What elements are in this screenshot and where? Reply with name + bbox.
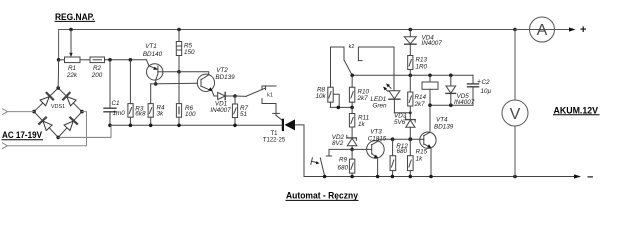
svg-text:BD140: BD140 xyxy=(143,51,163,58)
node bridge+/R1 xyxy=(57,58,61,62)
diode bridge top-right xyxy=(63,93,76,106)
svg-text:22k: 22k xyxy=(66,72,78,79)
svg-text:Automat - Ręczny: Automat - Ręczny xyxy=(286,191,358,201)
svg-text:BD139: BD139 xyxy=(434,123,454,130)
wire coil bottom net xyxy=(430,104,473,106)
resistor R1 (potentiometer) xyxy=(65,57,81,63)
diode VD5 xyxy=(450,75,452,86)
diode VD4 xyxy=(409,30,411,37)
svg-text:IN4007: IN4007 xyxy=(422,40,443,47)
node rail R6 xyxy=(177,124,181,128)
switch Automat/Reczny xyxy=(329,149,352,156)
wire R1-R2 xyxy=(80,59,90,61)
wire bridge minus to rail xyxy=(58,125,111,137)
wire LED cathode to VD3 xyxy=(394,112,410,114)
battery label xyxy=(554,105,599,115)
relay coil k1 xyxy=(422,82,438,89)
resistor R7 xyxy=(234,96,236,104)
node bridge left xyxy=(32,110,36,114)
wire wiper riser xyxy=(70,30,72,55)
transistor VT3 xyxy=(367,141,385,159)
svg-text:3k: 3k xyxy=(157,111,165,118)
bottom rail nodes xyxy=(350,175,354,179)
relay contact k2 xyxy=(331,47,345,87)
node R5/VT1 base/R6 xyxy=(177,70,181,74)
wire VT1 base to R5 node xyxy=(163,71,179,73)
zener VD3 xyxy=(409,113,411,120)
wire +bus y60 xyxy=(105,59,147,61)
node R3 top xyxy=(129,58,133,62)
node rail R7 xyxy=(233,124,237,128)
svg-text:T1: T1 xyxy=(270,131,278,137)
svg-text:1k: 1k xyxy=(416,155,424,162)
svg-text:AC 17-19V: AC 17-19V xyxy=(2,130,42,140)
svg-text:680: 680 xyxy=(338,164,349,171)
svg-text:VT4: VT4 xyxy=(436,116,448,123)
resistor R8 (trimmer) xyxy=(328,87,333,102)
node top-rail / ammeter branch xyxy=(513,28,517,32)
node R12 top xyxy=(391,137,395,141)
svg-text:T122-25: T122-25 xyxy=(263,137,286,143)
svg-text:−: − xyxy=(587,172,593,184)
svg-text:C1: C1 xyxy=(112,100,120,107)
transistor VT2 xyxy=(197,74,214,91)
node VT1 collector xyxy=(154,82,158,86)
wire mid bus y75.3 xyxy=(352,74,473,76)
svg-text:VT1: VT1 xyxy=(145,43,157,50)
wire main mid rail y125.3 xyxy=(110,124,282,126)
svg-text:680: 680 xyxy=(397,148,408,155)
node arm/R10 xyxy=(350,74,354,78)
svg-text:k1: k1 xyxy=(267,92,273,98)
resistor R11 xyxy=(351,107,353,113)
title REG.NAP. xyxy=(55,12,95,23)
svg-text:5V6: 5V6 xyxy=(394,119,406,126)
svg-text:1m0: 1m0 xyxy=(113,110,126,117)
diode bridge bottom-right xyxy=(64,118,77,131)
wire base bus to VT2 collector xyxy=(179,72,209,75)
voltmeter V xyxy=(514,30,516,101)
wire bridge top to R1 node xyxy=(57,60,59,88)
relay contact k1 xyxy=(235,95,246,97)
AC input wire 2 xyxy=(3,143,8,149)
wire R1 left lead xyxy=(59,59,65,61)
resistor R12 xyxy=(392,139,394,156)
wire top rail xyxy=(59,30,571,61)
thyristor T1 xyxy=(282,120,284,130)
svg-text:1k: 1k xyxy=(358,121,366,128)
resistor R6 xyxy=(178,72,180,104)
resistor R14 xyxy=(409,75,411,92)
node coil top xyxy=(428,74,432,78)
resistor R13 xyxy=(408,56,413,70)
svg-text:100: 100 xyxy=(185,111,196,118)
svg-text:BD139: BD139 xyxy=(215,74,235,81)
svg-text:1R0: 1R0 xyxy=(416,63,428,70)
svg-text:Gren: Gren xyxy=(373,103,387,110)
node switch bottom xyxy=(323,175,327,179)
svg-text:8V2: 8V2 xyxy=(332,140,344,147)
AC input label xyxy=(2,130,42,140)
svg-text:IN4007: IN4007 xyxy=(454,99,475,106)
node bridge top xyxy=(56,86,60,90)
svg-text:2k7: 2k7 xyxy=(357,95,369,102)
node C1 top xyxy=(108,58,112,62)
svg-text:+: + xyxy=(477,79,481,86)
wire R8/R10 bottom link xyxy=(331,106,353,108)
svg-text:200: 200 xyxy=(91,72,103,79)
resistor R15 xyxy=(409,139,411,156)
AC input wire 1 xyxy=(3,109,8,115)
diode LED1 xyxy=(389,91,400,99)
ammeter A xyxy=(530,17,555,42)
svg-text:R1: R1 xyxy=(68,65,76,72)
node rail R3 xyxy=(129,124,133,128)
node rail R4 xyxy=(149,124,153,128)
capacitor C2 xyxy=(472,75,474,84)
transistor VT1 xyxy=(147,64,163,80)
svg-text:V: V xyxy=(510,106,521,123)
svg-text:51: 51 xyxy=(240,111,247,118)
wire VT3 base from switch xyxy=(352,148,367,150)
node bridge right xyxy=(80,110,84,114)
svg-text:IN4007: IN4007 xyxy=(210,107,231,114)
wire VT1 collector to VT2 base xyxy=(151,82,198,85)
svg-text:AKUM.12V: AKUM.12V xyxy=(554,105,599,115)
node VD2/R9/base xyxy=(350,148,354,152)
diode bridge top-left xyxy=(40,93,53,106)
wire T1 to bottom rail corner xyxy=(295,125,575,177)
node VD3/R15 xyxy=(408,137,412,141)
node R13/R14 xyxy=(409,74,413,78)
svg-text:R2: R2 xyxy=(93,65,102,72)
diode VD1 xyxy=(214,95,218,97)
node bridge bottom xyxy=(56,136,60,140)
svg-text:2k7: 2k7 xyxy=(414,101,426,108)
capacitor C1 xyxy=(109,60,111,108)
resistor R10 xyxy=(351,75,353,87)
resistor R9 xyxy=(351,149,353,159)
wire VT3 collector bus y139 xyxy=(378,138,420,140)
resistor R2 xyxy=(90,57,105,63)
svg-text:+: + xyxy=(580,24,586,36)
node top-rail / R5 xyxy=(177,28,181,32)
svg-text:R9: R9 xyxy=(339,157,348,164)
resistor R3 xyxy=(129,60,131,104)
svg-text:150: 150 xyxy=(184,49,195,56)
node VD1/R7/k1 xyxy=(233,94,237,98)
svg-text:C2: C2 xyxy=(482,79,491,86)
svg-text:10k: 10k xyxy=(316,93,327,100)
svg-text:6k8: 6k8 xyxy=(135,110,146,117)
svg-text:k2: k2 xyxy=(349,44,355,50)
svg-text:VDS1: VDS1 xyxy=(51,104,65,110)
svg-text:10µ: 10µ xyxy=(481,88,492,95)
node top-rail / VD4 xyxy=(409,28,413,32)
node top-rail / wiper xyxy=(69,28,73,32)
diode bridge bottom-left xyxy=(39,118,52,131)
node VD5 top xyxy=(449,74,453,78)
resistor R5 xyxy=(178,30,180,42)
node rail C1 xyxy=(108,124,112,128)
svg-text:VT3: VT3 xyxy=(370,128,382,135)
transistor VT4 xyxy=(420,132,436,148)
resistor R4 xyxy=(150,84,152,104)
diode bridge VDS1 xyxy=(34,88,82,137)
svg-text:A: A xyxy=(537,22,548,39)
svg-text:VT2: VT2 xyxy=(216,67,228,74)
zener VD2 xyxy=(347,137,357,139)
